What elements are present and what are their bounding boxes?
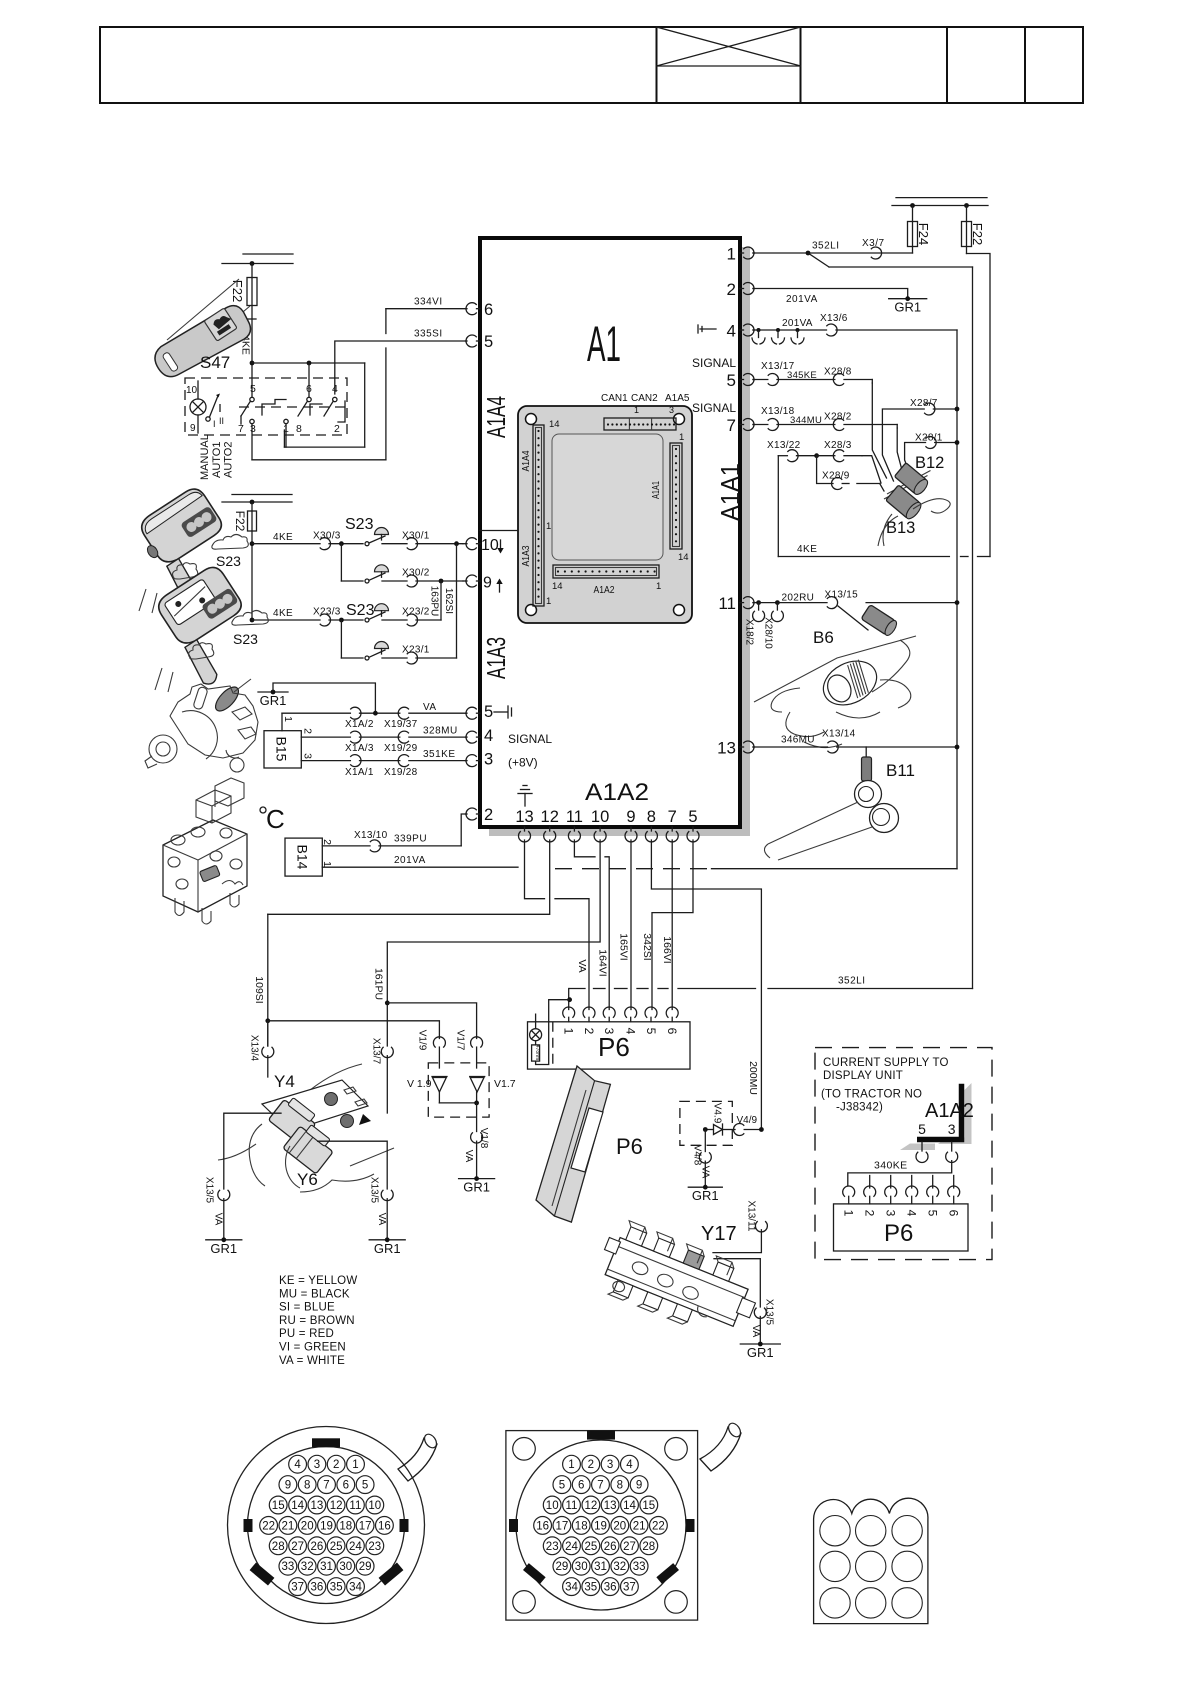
wire 352LI bottom [570, 976, 973, 989]
svg-text:KE = YELLOW: KE = YELLOW [279, 1275, 357, 1287]
svg-text:9: 9 [626, 808, 635, 826]
svg-text:VA: VA [376, 1213, 387, 1226]
svg-text:35: 35 [584, 1582, 597, 1594]
svg-text:109SI: 109SI [253, 976, 265, 1003]
svg-text:22: 22 [262, 1520, 275, 1532]
svg-text:A1A5: A1A5 [665, 393, 690, 404]
svg-text:201VA: 201VA [782, 318, 813, 329]
svg-text:F24: F24 [916, 223, 931, 245]
S23 lever illustration 1 [131, 484, 249, 613]
title block table [100, 27, 1083, 103]
svg-text:5: 5 [918, 1121, 926, 1137]
svg-text:2: 2 [302, 728, 314, 734]
svg-text:1: 1 [679, 432, 684, 443]
svg-text:334VI: 334VI [414, 297, 443, 308]
svg-text:X28/10: X28/10 [763, 617, 774, 649]
svg-text:344MU: 344MU [790, 415, 822, 426]
B15 pin3 wire 351KE to pin3 [301, 749, 465, 778]
svg-text:4: 4 [484, 727, 493, 745]
svg-text:V4.9: V4.9 [712, 1103, 723, 1124]
wire 340KE [848, 1160, 952, 1187]
svg-text:S23: S23 [345, 516, 374, 533]
svg-text:34: 34 [565, 1582, 578, 1594]
svg-text:27: 27 [623, 1541, 636, 1553]
svg-text:X23/3: X23/3 [313, 607, 341, 618]
valve block illustration (B14) [163, 778, 247, 924]
earth symbol above pin 13 [518, 786, 532, 807]
square connector 37-pin [506, 1421, 743, 1620]
svg-text:36: 36 [311, 1582, 324, 1594]
svg-text:V1/9: V1/9 [417, 1030, 428, 1051]
svg-text:X28/7: X28/7 [910, 398, 938, 409]
svg-text:4KE: 4KE [273, 608, 293, 619]
svg-text:4: 4 [294, 1459, 301, 1471]
pump illustration (B15) [145, 679, 258, 772]
svg-text:2: 2 [321, 839, 333, 845]
svg-text:GR1: GR1 [463, 1180, 490, 1195]
connector X13/4 [249, 1021, 274, 1077]
P6 pin1 riser to 352LI [567, 989, 572, 1010]
svg-text:8: 8 [296, 423, 302, 435]
svg-text:335SI: 335SI [414, 329, 443, 340]
svg-text:VA: VA [750, 1325, 761, 1338]
svg-text:P6: P6 [616, 1134, 643, 1159]
wire F22 down right side [967, 254, 991, 557]
svg-text:X1A/3: X1A/3 [345, 743, 374, 754]
svg-text:SIGNAL: SIGNAL [692, 356, 736, 370]
display unit P6 box [528, 1022, 691, 1069]
svg-text:5: 5 [484, 333, 493, 351]
svg-text:1: 1 [546, 521, 551, 532]
lamp in S47 [186, 381, 206, 434]
colour legend [279, 1275, 357, 1367]
svg-text:X13/11: X13/11 [746, 1201, 757, 1232]
svg-text:F22: F22 [230, 280, 245, 302]
wire 165VI pin9 to P6 pin4 [618, 840, 632, 1010]
svg-text:342SI: 342SI [641, 933, 653, 960]
svg-text:24: 24 [349, 1541, 362, 1553]
svg-text:GR1: GR1 [747, 1345, 774, 1360]
current supply dashed box [815, 1048, 992, 1260]
svg-text:4KE: 4KE [273, 532, 293, 543]
svg-text:340KE: 340KE [874, 1160, 908, 1172]
svg-text:P6: P6 [598, 1032, 630, 1062]
A1 left edge pins [466, 301, 553, 824]
svg-text:328MU: 328MU [423, 726, 458, 737]
svg-text:7: 7 [668, 808, 677, 826]
svg-text:47ohm: 47ohm [534, 1045, 540, 1060]
B14 pin1 wire 201VA [321, 855, 518, 867]
P6 pins 1-6 [562, 1007, 680, 1035]
svg-text:2: 2 [588, 1459, 594, 1471]
svg-text:CURRENT SUPPLY TO: CURRENT SUPPLY TO [823, 1057, 949, 1069]
svg-text:F22: F22 [233, 511, 247, 532]
svg-text:S23: S23 [216, 553, 241, 569]
svg-text:Y17: Y17 [701, 1223, 737, 1245]
svg-text:1: 1 [842, 1210, 856, 1217]
fuse F22 for S47 [230, 264, 257, 306]
svg-text:V1.7: V1.7 [494, 1078, 516, 1090]
svg-text:V1/7: V1/7 [455, 1030, 466, 1051]
svg-text:5: 5 [727, 371, 736, 390]
sensor B14 box [285, 838, 322, 876]
svg-text:4: 4 [624, 1028, 638, 1035]
wire 4KE vertical S47 [240, 306, 257, 398]
svg-text:36: 36 [604, 1582, 617, 1594]
svg-text:I: I [213, 419, 216, 429]
svg-text:X13/4: X13/4 [249, 1035, 260, 1062]
svg-text:3: 3 [884, 1210, 898, 1217]
filter symbol left of pin 4 [698, 325, 716, 333]
svg-text:1: 1 [727, 245, 736, 264]
svg-text:B6: B6 [813, 628, 834, 647]
svg-text:30: 30 [339, 1561, 352, 1573]
svg-text:PU = RED: PU = RED [279, 1328, 334, 1340]
svg-text:X30/1: X30/1 [402, 531, 430, 542]
svg-text:B12: B12 [915, 454, 944, 472]
MANUAL AUTO1 AUTO2 labels [199, 434, 235, 480]
svg-text:X28/2: X28/2 [824, 411, 852, 422]
svg-text:16: 16 [378, 1520, 391, 1532]
svg-text:29: 29 [359, 1561, 372, 1573]
wire 164VI pin11 to P6 pin3 [574, 840, 609, 1010]
svg-text:A1A2: A1A2 [594, 585, 615, 596]
svg-text:MANUAL: MANUAL [199, 434, 211, 480]
wire 201VA pin2 to GR1 [753, 289, 908, 306]
S47 contacts pole A [238, 383, 256, 460]
svg-text:CAN2: CAN2 [631, 393, 658, 404]
svg-text:3: 3 [948, 1121, 956, 1137]
svg-text:35: 35 [330, 1582, 343, 1594]
svg-text:352LI: 352LI [812, 241, 840, 252]
svg-text:201VA: 201VA [394, 855, 426, 866]
svg-text:27: 27 [291, 1541, 304, 1553]
diode box dashed [428, 1063, 489, 1117]
svg-text:6: 6 [343, 1480, 349, 1492]
A1A2 connector angle [900, 1083, 974, 1150]
S23 wires to pins 10 and 9 [463, 544, 466, 581]
connector X13/11 on 200MU [746, 1201, 768, 1232]
svg-text:34: 34 [349, 1582, 362, 1594]
fuse F22 for S23 [233, 502, 257, 532]
svg-text:11: 11 [566, 1500, 578, 1512]
svg-text:X28/3: X28/3 [824, 440, 852, 451]
svg-text:345KE: 345KE [787, 370, 817, 381]
solenoid Y4/Y6 illustration [218, 1064, 394, 1192]
svg-text:VA: VA [700, 1166, 711, 1179]
shield drains below pin4 wire [752, 328, 804, 344]
svg-text:(TO TRACTOR NO: (TO TRACTOR NO [821, 1089, 922, 1101]
svg-text:V4/8: V4/8 [692, 1145, 703, 1166]
svg-text:X13/7: X13/7 [371, 1038, 382, 1065]
round connector 37-pin (mirrored numbering) [228, 1427, 439, 1624]
svg-text:202RU: 202RU [782, 593, 815, 604]
svg-text:1: 1 [282, 716, 294, 722]
svg-text:A1A4: A1A4 [521, 450, 532, 471]
wire 344MU X13/18 X28/2 pin7 [753, 406, 897, 431]
svg-text:A1A4: A1A4 [481, 396, 511, 438]
svg-text:2: 2 [333, 1459, 339, 1471]
X13/5 right ground [318, 1141, 406, 1256]
P6 lamp and resistor [530, 1000, 570, 1065]
svg-text:2: 2 [334, 423, 340, 435]
svg-text:10: 10 [591, 808, 609, 826]
svg-text:X18/2: X18/2 [744, 619, 755, 646]
svg-text:B11: B11 [886, 761, 915, 780]
svg-text:GR1: GR1 [374, 1241, 401, 1256]
svg-text:1: 1 [568, 1459, 574, 1471]
svg-text:V 1.9: V 1.9 [407, 1078, 432, 1090]
svg-text:VA: VA [213, 1213, 224, 1226]
svg-text:SIGNAL: SIGNAL [508, 732, 552, 746]
svg-text:31: 31 [320, 1561, 333, 1573]
diode V1.9 [407, 1077, 447, 1103]
stub X28/10 [763, 603, 784, 650]
svg-text:X30/3: X30/3 [313, 531, 341, 542]
connector V4/9 [734, 1115, 764, 1135]
svg-text:28: 28 [272, 1541, 285, 1553]
svg-text:9: 9 [285, 1480, 291, 1492]
svg-text:12: 12 [330, 1500, 343, 1512]
svg-text:10: 10 [368, 1500, 381, 1512]
X13/5 ground at Y17 [740, 1299, 780, 1360]
svg-text:18: 18 [339, 1520, 352, 1532]
diode junction [439, 1101, 479, 1132]
V4/8 to GR1 [688, 1130, 722, 1204]
svg-text:17: 17 [556, 1520, 569, 1532]
wire 166VI pin7 to P6 pin6 [661, 840, 673, 1010]
svg-text:19: 19 [594, 1520, 607, 1532]
svg-text:200MU: 200MU [747, 1061, 759, 1095]
diode V1.7 [470, 1077, 516, 1103]
svg-text:352LI: 352LI [838, 976, 866, 987]
svg-text:9: 9 [483, 575, 492, 592]
svg-text:1: 1 [321, 861, 333, 867]
S23 row4 [341, 544, 456, 664]
svg-text:X19/37: X19/37 [384, 719, 418, 730]
svg-text:19: 19 [320, 1520, 333, 1532]
fuse F24 [908, 206, 932, 254]
svg-text:8: 8 [617, 1480, 623, 1492]
svg-text:RU = BROWN: RU = BROWN [279, 1315, 355, 1327]
S47 contacts pole C [310, 383, 345, 435]
wire X28/9 [817, 456, 880, 490]
svg-text:11: 11 [349, 1500, 361, 1512]
sensor B11 illustration [764, 747, 915, 860]
svg-text:32: 32 [301, 1561, 314, 1573]
svg-text:X19/29: X19/29 [384, 743, 418, 754]
svg-text:VI = GREEN: VI = GREEN [279, 1342, 346, 1354]
svg-text:31: 31 [594, 1561, 607, 1573]
svg-text:166VI: 166VI [661, 936, 673, 963]
svg-text:X13/6: X13/6 [820, 313, 848, 324]
svg-text:10: 10 [481, 537, 499, 554]
ground GR1 above B15 [258, 683, 375, 713]
svg-text:X23/2: X23/2 [402, 607, 430, 618]
svg-text:X13/22: X13/22 [767, 440, 801, 451]
svg-text:346MU: 346MU [781, 735, 815, 746]
svg-text:14: 14 [549, 419, 560, 430]
svg-text:17: 17 [359, 1520, 372, 1532]
svg-text:VA = WHITE: VA = WHITE [279, 1355, 345, 1367]
svg-text:14: 14 [678, 552, 689, 563]
wire 335SI to pin5 [335, 329, 466, 395]
svg-text:23: 23 [546, 1541, 559, 1553]
svg-text:VA: VA [576, 959, 588, 972]
A1 right edge pins [692, 245, 755, 758]
svg-text:29: 29 [556, 1561, 569, 1573]
svg-text:4: 4 [727, 322, 736, 341]
svg-text:X1A/1: X1A/1 [345, 767, 374, 778]
svg-text:VA: VA [463, 1150, 474, 1163]
wire to V1/9 [268, 1021, 446, 1068]
svg-text:1: 1 [656, 581, 661, 592]
B15 pin2 wire 328MU to pin4 [301, 726, 465, 755]
svg-text:7: 7 [323, 1480, 329, 1492]
svg-text:4: 4 [626, 1459, 633, 1471]
svg-text:A1: A1 [587, 316, 621, 372]
svg-text:S23: S23 [233, 631, 258, 647]
svg-text:V1/8: V1/8 [478, 1128, 489, 1149]
svg-text:B14: B14 [295, 845, 311, 870]
sensor B12 B13 illustration [878, 454, 950, 546]
svg-text:28: 28 [642, 1541, 655, 1553]
svg-text:A1A3: A1A3 [521, 545, 532, 566]
svg-text:F22: F22 [970, 223, 985, 245]
diode V4.9 [703, 1103, 735, 1135]
svg-text:14: 14 [552, 581, 563, 592]
svg-text:B15: B15 [274, 737, 290, 762]
connector V1/8 to GR1 [459, 1128, 495, 1195]
svg-text:33: 33 [282, 1561, 295, 1573]
svg-text:201VA: 201VA [786, 294, 818, 305]
S47 dashed switch box [185, 378, 347, 435]
svg-text:5: 5 [484, 703, 493, 721]
svg-text:3: 3 [669, 405, 674, 415]
svg-text:A1A2: A1A2 [585, 779, 649, 806]
svg-text:5: 5 [362, 1480, 368, 1492]
svg-text:C: C [266, 804, 285, 834]
svg-text:X19/28: X19/28 [384, 767, 418, 778]
svg-text:2: 2 [863, 1210, 877, 1217]
svg-text:8: 8 [647, 808, 656, 826]
svg-text:X13/15: X13/15 [825, 590, 859, 601]
svg-text:7: 7 [727, 416, 736, 435]
svg-text:351KE: 351KE [423, 749, 456, 760]
svg-text:3: 3 [250, 423, 256, 435]
svg-text:5: 5 [688, 808, 697, 826]
svg-text:S23: S23 [346, 602, 375, 619]
svg-text:3: 3 [607, 1459, 613, 1471]
svg-text:161PU: 161PU [373, 968, 385, 1000]
svg-text:14: 14 [623, 1500, 636, 1512]
PCB connector A1A1 right strip [651, 432, 689, 563]
svg-text:7: 7 [238, 423, 244, 435]
svg-text:Y4: Y4 [274, 1072, 295, 1091]
svg-text:8: 8 [304, 1480, 310, 1492]
Y17 wires [713, 1230, 761, 1307]
svg-text:7: 7 [597, 1480, 603, 1492]
svg-text:6: 6 [665, 1028, 679, 1035]
svg-text:6: 6 [484, 301, 493, 319]
S47 wiring loops [252, 361, 386, 460]
svg-text:(+8V): (+8V) [508, 756, 538, 770]
svg-text:DISPLAY UNIT: DISPLAY UNIT [823, 1070, 903, 1082]
svg-text:A1A3: A1A3 [481, 637, 511, 679]
wire 352LI pin1 to F24 [753, 238, 913, 259]
power rail top right [892, 198, 988, 208]
PCB connector A1A4/A1A3 left strip [521, 419, 560, 607]
svg-text:13: 13 [515, 808, 533, 826]
svg-text:GR1: GR1 [260, 693, 287, 708]
svg-text:164VI: 164VI [597, 949, 609, 976]
svg-text:3: 3 [484, 751, 493, 769]
wire 346MU X13/14 pin13 [753, 729, 959, 754]
sensor B15 box [264, 731, 301, 768]
wire 352LI branch down right side [808, 253, 973, 989]
svg-text:24: 24 [565, 1541, 578, 1553]
9-way connector [814, 1498, 928, 1623]
B15 pin1 wire VA to pin5 [282, 702, 466, 731]
svg-text:13: 13 [717, 739, 736, 758]
svg-text:GR1: GR1 [692, 1188, 719, 1203]
svg-text:1: 1 [562, 1028, 576, 1035]
svg-text:-J38342): -J38342) [836, 1102, 883, 1114]
power rail S23 [222, 495, 292, 505]
filter symbol right of pin 5 inside [494, 706, 512, 718]
wire 161PU pin10 [373, 840, 601, 1046]
svg-text:X13/5: X13/5 [369, 1177, 380, 1204]
svg-text:162SI: 162SI [443, 588, 454, 614]
S23 switch rows [250, 531, 463, 621]
svg-text:6: 6 [947, 1210, 961, 1217]
svg-text:SIGNAL: SIGNAL [692, 401, 736, 415]
svg-text:GR1: GR1 [894, 300, 921, 315]
svg-text:X28/9: X28/9 [822, 470, 850, 481]
wire X13/22 X28/3 [767, 440, 862, 462]
fuse F22 top right [962, 206, 986, 254]
svg-text:10: 10 [186, 385, 198, 396]
wire X28/1 to 201VA riser [905, 432, 960, 470]
svg-text:23: 23 [368, 1541, 381, 1553]
svg-text:25: 25 [330, 1541, 343, 1553]
svg-text:V4/9: V4/9 [737, 1115, 758, 1126]
A1 internal PCB module [518, 406, 692, 623]
svg-text:MU = BLACK: MU = BLACK [279, 1288, 350, 1300]
svg-text:X28/1: X28/1 [915, 432, 943, 443]
wire 202RU X13/15 pin11 [753, 590, 959, 630]
svg-text:21: 21 [633, 1520, 646, 1532]
svg-text:13: 13 [311, 1500, 324, 1512]
svg-text:37: 37 [291, 1582, 304, 1594]
svg-text:30: 30 [575, 1561, 588, 1573]
svg-text:6: 6 [578, 1480, 584, 1492]
svg-text:2: 2 [727, 280, 736, 299]
svg-text:5: 5 [644, 1028, 658, 1035]
X13/5 left ground [204, 1113, 282, 1256]
svg-text:X13/5: X13/5 [764, 1299, 775, 1326]
valve block Y17 illustration [590, 1216, 767, 1346]
svg-text:X28/8: X28/8 [824, 366, 852, 377]
wire 4KE riser and run to F22 [778, 456, 990, 557]
ECU A1 box [480, 238, 750, 836]
S23 row2 [341, 544, 463, 587]
svg-text:9: 9 [190, 423, 196, 434]
svg-text:15: 15 [272, 1500, 285, 1512]
svg-text:Y6: Y6 [297, 1170, 318, 1189]
svg-text:25: 25 [585, 1541, 598, 1553]
svg-text:4: 4 [905, 1210, 919, 1217]
